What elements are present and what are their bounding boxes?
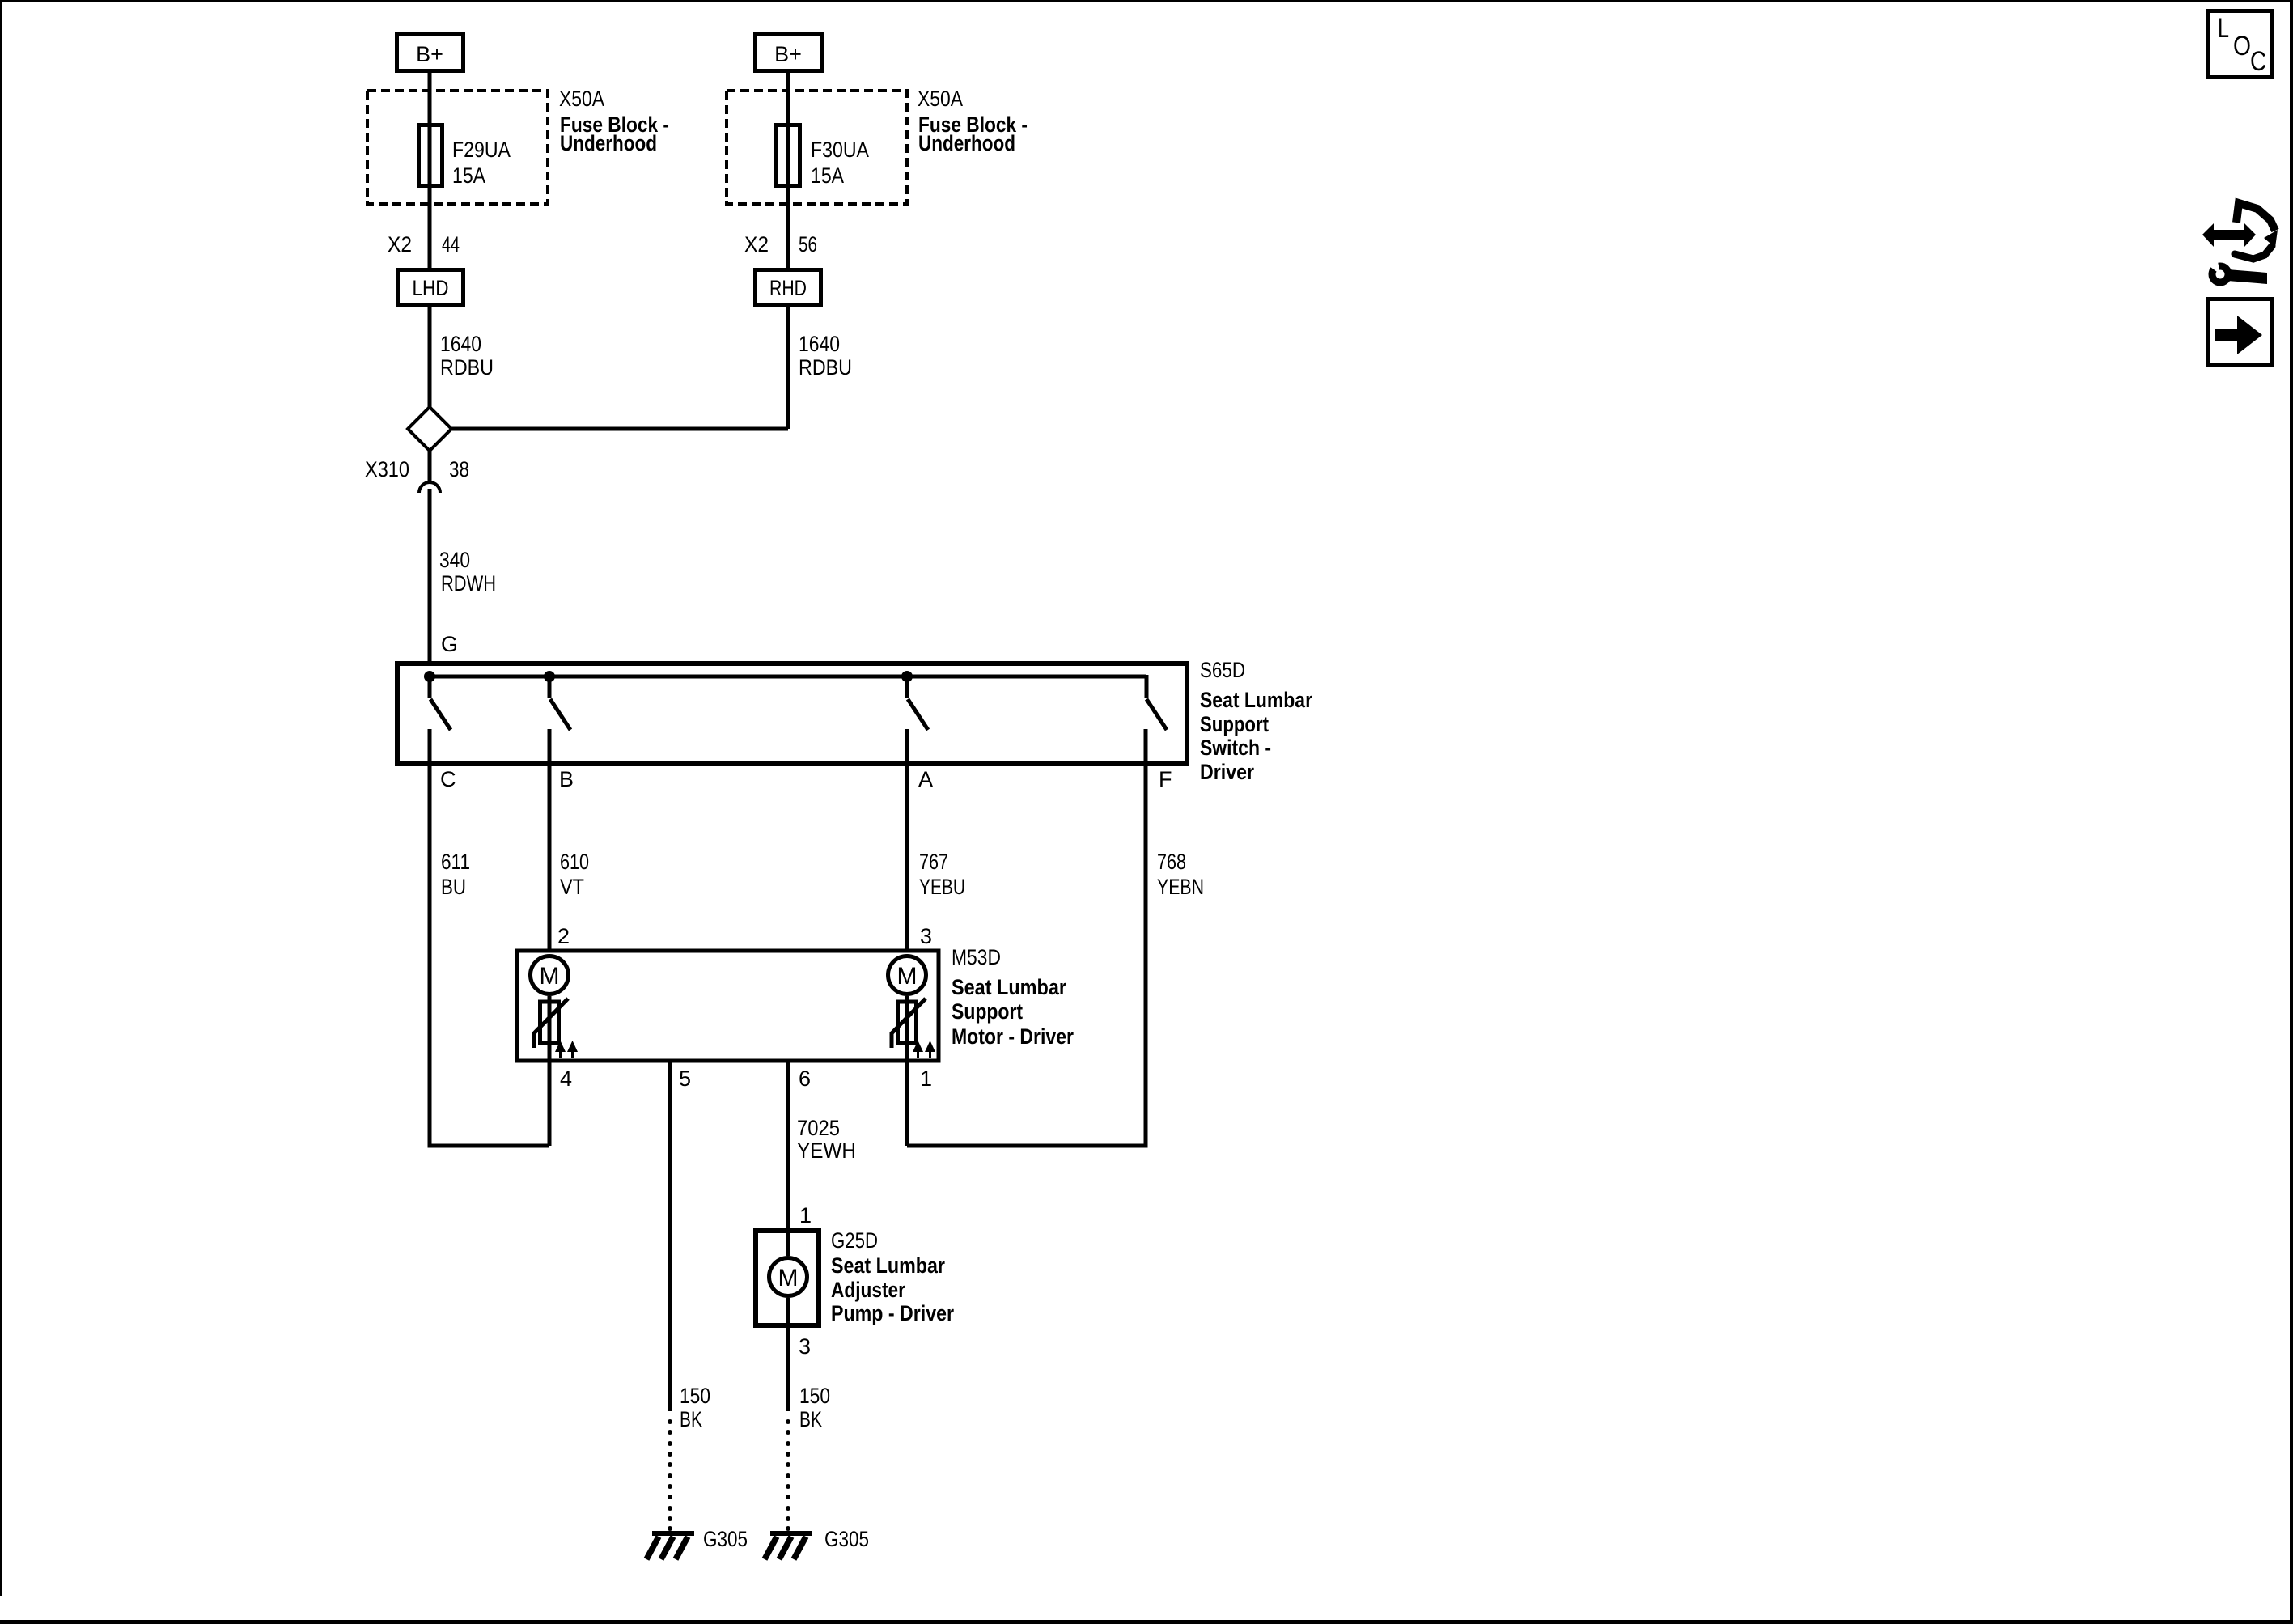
- svg-text:5: 5: [679, 1066, 691, 1091]
- wire B+ left to fuse F29UA: [428, 73, 432, 268]
- svg-text:BK: BK: [799, 1407, 822, 1431]
- svg-text:Seat Lumbar: Seat Lumbar: [952, 975, 1066, 999]
- svg-text:4: 4: [560, 1066, 572, 1091]
- LOC legend box: [2208, 11, 2272, 78]
- svg-text:G: G: [441, 632, 458, 656]
- node LHD: [398, 270, 464, 306]
- wire connector to switch, circuit 340 RDWH: [428, 489, 432, 661]
- svg-text:768: 768: [1157, 850, 1186, 874]
- label 767 YEBU: [919, 850, 965, 899]
- svg-text:1: 1: [799, 1203, 812, 1228]
- svg-text:Adjuster: Adjuster: [831, 1278, 905, 1302]
- svg-text:6: 6: [799, 1066, 811, 1091]
- label 1640 RDBU (left): [440, 332, 494, 379]
- svg-text:RHD: RHD: [769, 276, 807, 300]
- switch contact F: [1146, 675, 1167, 730]
- switch contact B: [549, 678, 570, 730]
- svg-text:X50A: X50A: [918, 87, 963, 111]
- svg-text:LHD: LHD: [413, 276, 449, 300]
- svg-text:C: C: [2250, 46, 2266, 77]
- svg-text:1640: 1640: [799, 332, 840, 356]
- svg-text:RDBU: RDBU: [440, 355, 494, 379]
- double arrow marks right: [913, 1041, 935, 1058]
- svg-text:3: 3: [799, 1334, 811, 1359]
- forward arrow box: [2208, 299, 2272, 366]
- svg-text:15A: 15A: [811, 163, 844, 188]
- svg-text:RDWH: RDWH: [441, 571, 496, 596]
- svg-text:YEBN: YEBN: [1157, 875, 1204, 899]
- wire pin A to motor pin 3, circuit 767 YEBU: [905, 729, 909, 950]
- label X50A Fuse Block - Underhood (right): [918, 87, 1028, 155]
- svg-text:G305: G305: [703, 1527, 748, 1551]
- fuse block X50A dashed outline (left): [367, 91, 548, 204]
- pin X2 44 (left fuse block): [388, 232, 460, 257]
- svg-text:X310: X310: [365, 457, 409, 481]
- label 768 YEBN: [1157, 850, 1204, 899]
- pin X2 56 (right fuse block): [744, 232, 817, 257]
- svg-text:B: B: [559, 767, 574, 791]
- svg-text:X2: X2: [744, 232, 769, 257]
- svg-text:YEWH: YEWH: [797, 1138, 856, 1163]
- label S65D Seat Lumbar Support Switch - Driver: [1200, 658, 1312, 784]
- svg-text:VT: VT: [560, 875, 584, 899]
- connector X310 pin 38 arc: [419, 482, 440, 493]
- svg-text:A: A: [918, 767, 933, 791]
- motor symbol right (lumbar motor): [888, 956, 926, 1063]
- svg-text:M: M: [540, 963, 560, 990]
- svg-text:RDBU: RDBU: [799, 355, 852, 379]
- label 611 BU: [441, 850, 470, 899]
- svg-text:F30UA: F30UA: [811, 138, 869, 162]
- wire LHD to splice, circuit 1640 RDBU: [428, 307, 432, 407]
- fuse F30UA 15A: [777, 125, 800, 186]
- svg-text:Support: Support: [952, 999, 1023, 1024]
- service icon hook arrow: [2235, 203, 2278, 259]
- wire RHD to splice, circuit 1640 RDBU: [786, 307, 790, 429]
- svg-text:Motor - Driver: Motor - Driver: [952, 1024, 1074, 1049]
- label M53D Seat Lumbar Support Motor - Driver: [952, 945, 1074, 1049]
- svg-text:M53D: M53D: [952, 945, 1001, 969]
- svg-text:BK: BK: [680, 1407, 702, 1431]
- svg-text:Seat Lumbar: Seat Lumbar: [831, 1253, 945, 1278]
- svg-text:3: 3: [920, 924, 932, 948]
- label 610 VT: [560, 850, 589, 899]
- svg-text:M: M: [778, 1265, 799, 1291]
- svg-text:1: 1: [920, 1066, 932, 1091]
- svg-text:X2: X2: [388, 232, 412, 257]
- switch contact C: [430, 678, 451, 730]
- wire splice horizontal: [450, 427, 788, 431]
- junction dot B: [544, 671, 555, 682]
- motor symbol left (lumbar motor): [531, 956, 569, 1063]
- svg-text:150: 150: [680, 1384, 710, 1408]
- svg-text:150: 150: [799, 1384, 830, 1408]
- svg-text:B+: B+: [416, 42, 443, 66]
- label 7025 YEWH: [797, 1116, 856, 1163]
- svg-text:BU: BU: [441, 875, 466, 899]
- svg-text:C: C: [440, 767, 456, 791]
- svg-text:611: 611: [441, 850, 470, 874]
- svg-text:X50A: X50A: [559, 87, 604, 111]
- wire motor pin 1 to loop: [905, 1062, 909, 1146]
- svg-text:44: 44: [442, 232, 460, 257]
- svg-text:Underhood: Underhood: [918, 131, 1015, 155]
- svg-text:340: 340: [439, 548, 470, 572]
- wire internal bus: [430, 675, 1146, 679]
- junction dot A: [901, 671, 913, 682]
- svg-text:2: 2: [557, 924, 570, 948]
- label X310 38: [365, 457, 469, 481]
- ground symbol G305 (right): [765, 1531, 812, 1559]
- node RHD: [756, 270, 821, 306]
- label 340 RDWH: [439, 548, 496, 596]
- svg-text:Driver: Driver: [1200, 760, 1254, 784]
- node B+ (right): [756, 34, 822, 71]
- wire pin B to motor pin 2, circuit 610 VT: [548, 729, 552, 950]
- label X50A Fuse Block - Underhood (left): [559, 87, 669, 155]
- service icon wrench: [2204, 257, 2267, 284]
- svg-text:F29UA: F29UA: [452, 138, 511, 162]
- dotted wire to ground G305 (left): [668, 1419, 672, 1531]
- switch contact A: [907, 678, 928, 730]
- svg-text:Support: Support: [1200, 712, 1269, 736]
- svg-text:S65D: S65D: [1200, 658, 1245, 682]
- pump G25D box: [756, 1231, 819, 1325]
- ground symbol G305 (left): [646, 1531, 694, 1559]
- wire pump pin 3, circuit 150 BK: [786, 1325, 790, 1411]
- svg-text:Seat Lumbar: Seat Lumbar: [1200, 688, 1312, 712]
- switch S65D box: [397, 664, 1187, 764]
- svg-text:M: M: [897, 963, 918, 990]
- label G25D Seat Lumbar Adjuster Pump - Driver: [831, 1228, 954, 1325]
- svg-text:F: F: [1159, 767, 1172, 791]
- wire motor pin 5 to ground, circuit 150 BK: [668, 1062, 672, 1411]
- svg-text:G25D: G25D: [831, 1228, 878, 1253]
- svg-text:G305: G305: [824, 1527, 869, 1551]
- motor symbol pump: [769, 1228, 807, 1325]
- double arrow marks left: [555, 1041, 578, 1058]
- node B+ (left): [397, 34, 464, 71]
- svg-text:Switch -: Switch -: [1200, 736, 1271, 760]
- svg-text:15A: 15A: [452, 163, 485, 188]
- PTC thermistor right: [892, 999, 926, 1048]
- svg-text:38: 38: [449, 457, 469, 481]
- wire diamond to connector X310: [428, 451, 432, 482]
- label 1640 RDBU (right): [799, 332, 852, 379]
- PTC thermistor left: [534, 999, 568, 1048]
- service icon double arrow: [2202, 223, 2256, 247]
- label F29UA 15A: [452, 138, 511, 188]
- svg-text:7025: 7025: [797, 1116, 840, 1140]
- wire pin F to loop, circuit 768 YEBN: [907, 729, 1146, 1146]
- label F30UA 15A: [811, 138, 869, 188]
- motor M53D box: [517, 951, 939, 1061]
- wire motor pin 4 to loop: [548, 1062, 552, 1146]
- svg-text:YEBU: YEBU: [919, 875, 965, 899]
- svg-text:B+: B+: [774, 42, 802, 66]
- label 150 BK (left): [680, 1384, 710, 1431]
- junction dot C: [424, 671, 435, 682]
- dotted wire to ground G305 (right): [786, 1419, 790, 1531]
- fuse F29UA 15A: [419, 125, 443, 186]
- svg-text:767: 767: [919, 850, 948, 874]
- svg-text:1640: 1640: [440, 332, 481, 356]
- svg-text:610: 610: [560, 850, 589, 874]
- svg-text:O: O: [2233, 31, 2251, 61]
- splice diamond: [408, 407, 451, 451]
- svg-text:L: L: [2218, 13, 2229, 44]
- svg-text:56: 56: [799, 232, 817, 257]
- fuse block X50A dashed outline (right): [727, 91, 907, 204]
- svg-text:Underhood: Underhood: [560, 131, 657, 155]
- wire motor pin 6 to pump, circuit 7025 YEWH: [786, 1062, 790, 1228]
- svg-text:Pump - Driver: Pump - Driver: [831, 1301, 954, 1325]
- wire B+ right to fuse F30UA: [786, 73, 790, 268]
- label 150 BK (right): [799, 1384, 830, 1431]
- wire pin C to loop, circuit 611 BU: [430, 729, 549, 1146]
